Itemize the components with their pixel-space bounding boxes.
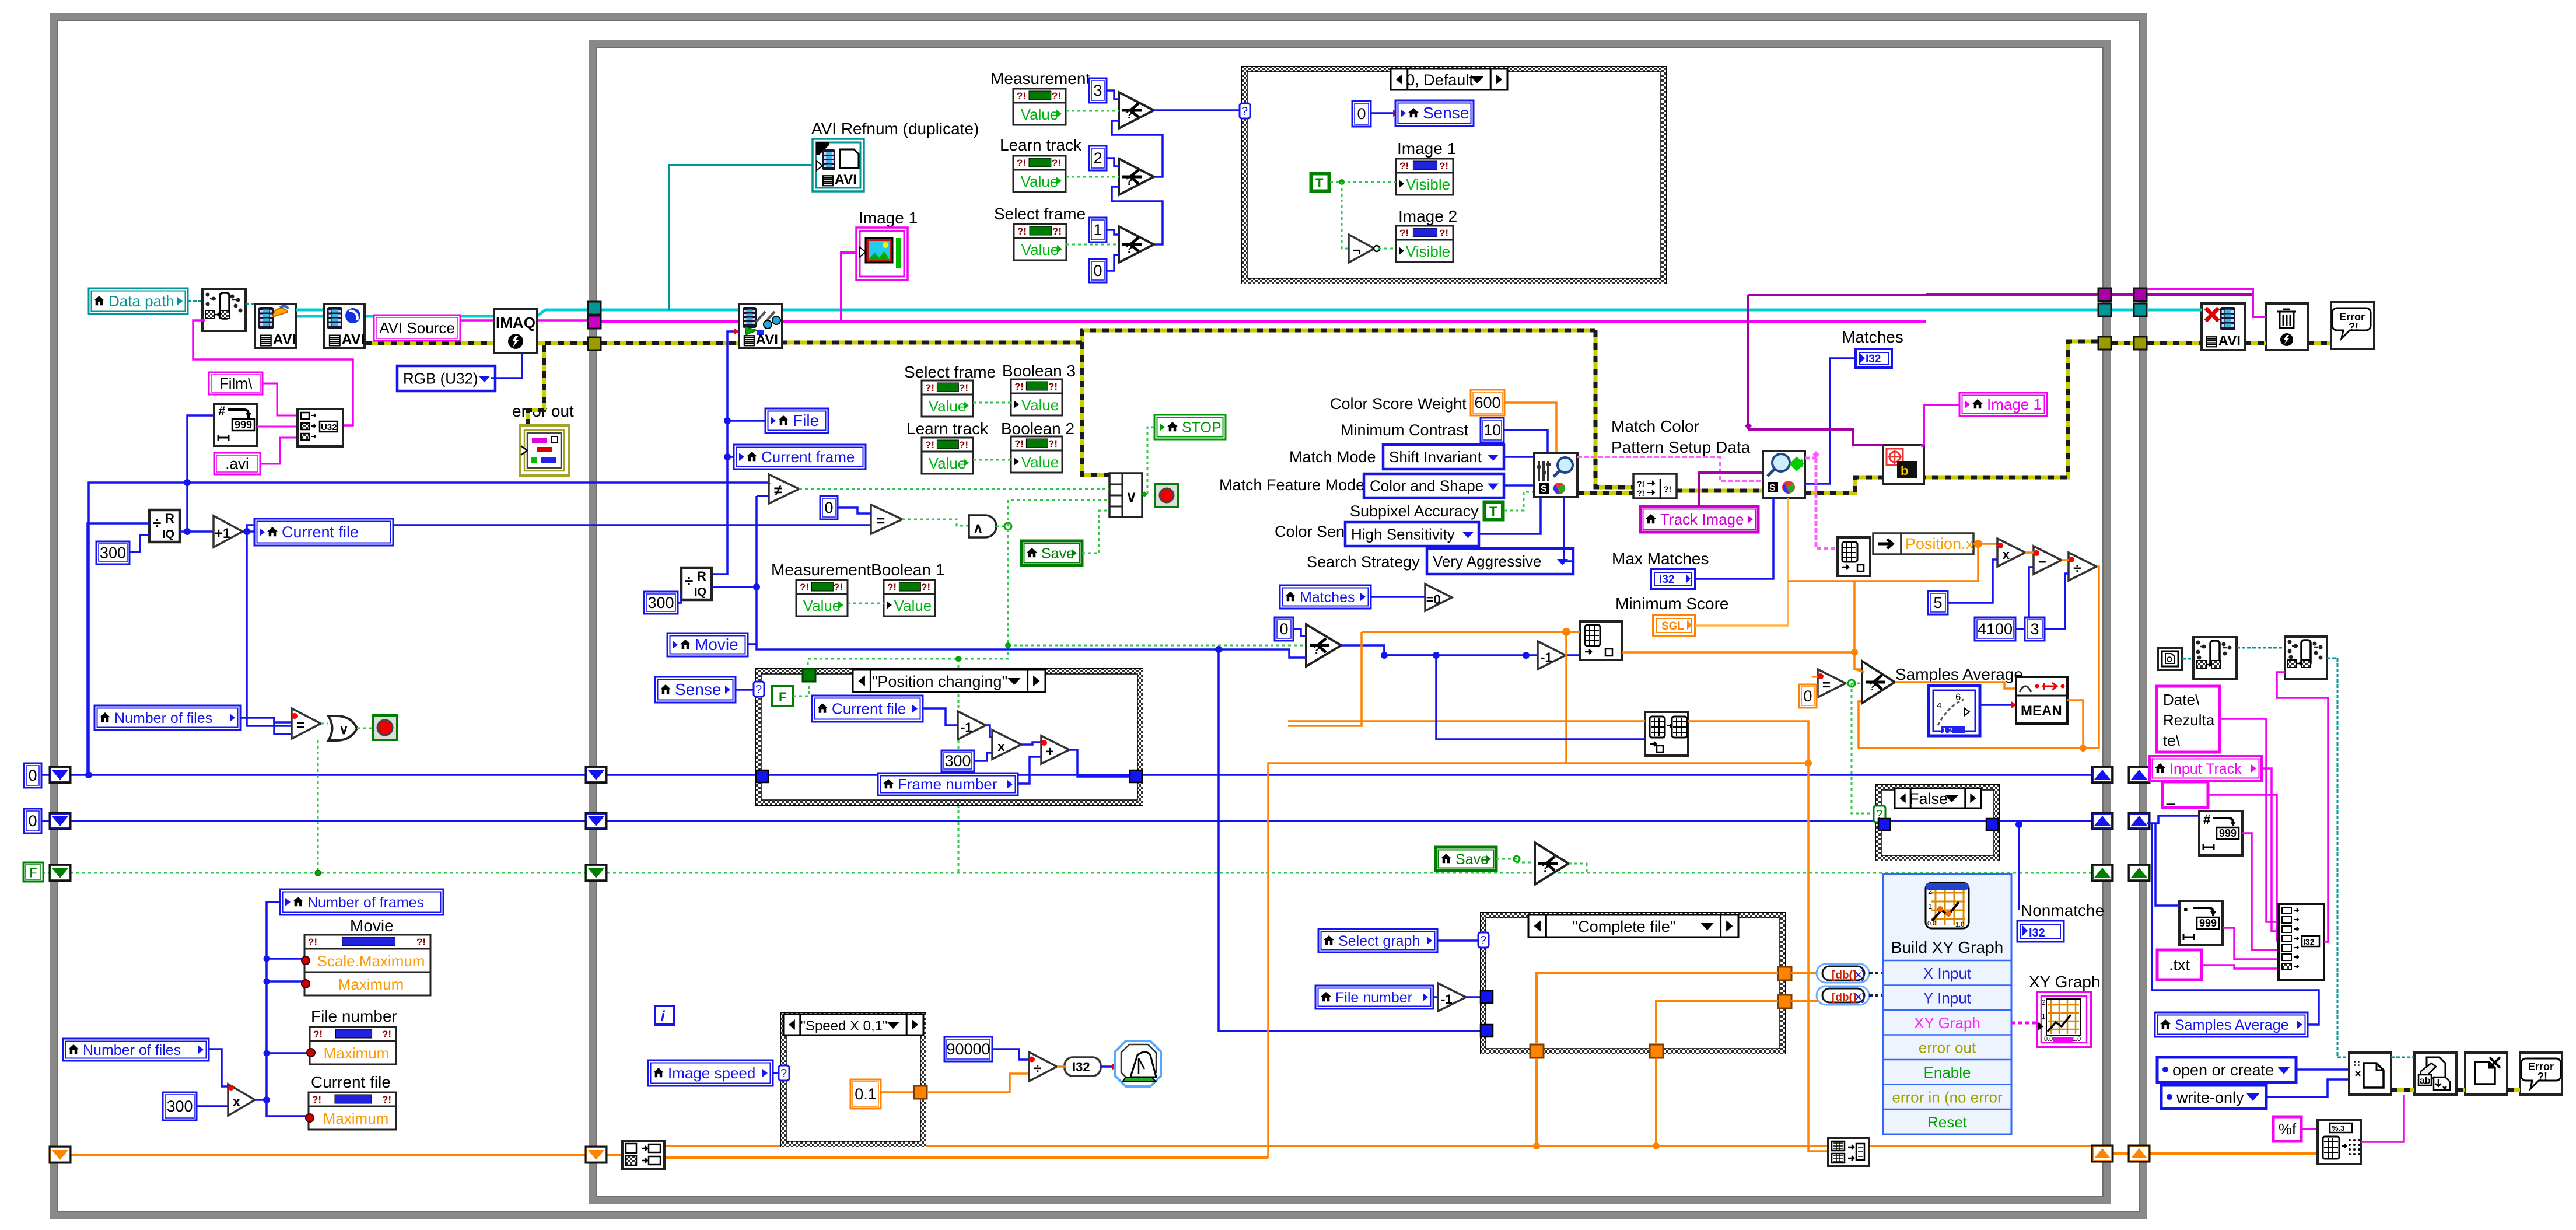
svg-text:[db(]: [db(] <box>1832 969 1856 981</box>
svg-text:Position.x: Position.x <box>1905 535 1974 553</box>
svg-text:x: x <box>2003 547 2010 562</box>
wire +1 down <box>247 532 292 726</box>
wire caseF junction <box>2015 821 2022 828</box>
svg-text:?!: ?! <box>1048 438 1058 449</box>
svg-text:?!: ?! <box>312 1094 321 1105</box>
wire film to concat <box>262 383 297 415</box>
svg-text:Samples Average: Samples Average <box>2175 1017 2289 1033</box>
wire div to i32 <box>1057 1065 1066 1068</box>
wire 300c to qr2 <box>678 593 681 603</box>
node error out cluster <box>520 425 569 476</box>
const 300 case2 <box>942 750 974 771</box>
node IMAQ Overlay <box>1883 445 1924 484</box>
wire bp2 out teal <box>2327 658 2349 1057</box>
wire not to visible2 <box>1378 248 1396 250</box>
svg-text:÷: ÷ <box>685 572 693 589</box>
node concat strings 2 <box>2278 904 2324 980</box>
wire eq to or <box>321 723 328 725</box>
node index array pos <box>1838 537 1870 576</box>
const 0 sense <box>1352 101 1371 127</box>
tunnel teal inner right <box>2098 303 2111 316</box>
svg-text:3: 3 <box>2030 620 2039 638</box>
wire 1 to sel <box>1107 230 1119 235</box>
tunnel case3 bottom orange1 <box>1530 1044 1543 1058</box>
svg-text:0.0: 0.0 <box>2044 1036 2053 1043</box>
svg-text:?!: ?! <box>1664 484 1671 494</box>
svg-text:-1: -1 <box>1541 650 1552 665</box>
wire error main <box>365 341 588 345</box>
svg-text:Image speed: Image speed <box>668 1064 755 1082</box>
wire green sr row <box>71 872 2092 874</box>
tunnel purple inner right <box>2098 288 2111 301</box>
wire green eq to selmid <box>1008 645 1306 647</box>
svg-text:?!: ?! <box>1017 158 1026 169</box>
wire 4100 to minus <box>2015 567 2034 629</box>
wire orange bus1 <box>664 1145 2092 1147</box>
svg-text:Scale.Maximum: Scale.Maximum <box>317 952 425 970</box>
wire blue to 999 <box>187 415 214 532</box>
tunnel case2 left blue <box>756 770 768 782</box>
svg-text:U32: U32 <box>321 422 337 432</box>
wire 0 to selmid <box>1293 629 1306 636</box>
dropdown Color and Shape <box>1364 474 1504 498</box>
svg-text:▤AVI: ▤AVI <box>743 332 778 348</box>
wire 0 to eq <box>838 508 871 513</box>
wire idx2 blue in <box>1436 655 1645 739</box>
svg-text:Very Aggressive: Very Aggressive <box>1433 553 1541 570</box>
node AVI Open <box>255 304 296 348</box>
wire curframe junction <box>727 456 734 458</box>
wire blue long r1 <box>187 481 769 484</box>
wire error to setup <box>781 330 1595 343</box>
const AVI Source <box>374 315 460 341</box>
svg-text:2: 2 <box>2042 998 2046 1007</box>
svg-text:"Position changing": "Position changing" <box>872 673 1007 690</box>
wire case3 orange in2 <box>1656 1001 1778 1044</box>
svg-text:2: 2 <box>1093 149 1102 167</box>
control Save <box>1021 541 1082 565</box>
svg-text:Value: Value <box>803 597 841 614</box>
wire 5 to mult <box>1948 560 1997 603</box>
gate not-equal <box>769 474 799 504</box>
svg-text:Save: Save <box>1041 546 1074 562</box>
node build path 1 <box>2193 637 2236 679</box>
wire AVI Source to IMAQ <box>460 319 494 322</box>
wire 600 to setup <box>1504 403 1556 454</box>
wire r2 to eq <box>870 524 872 526</box>
control Input Track <box>2150 756 2262 781</box>
gate =0 <box>1425 584 1452 611</box>
gate mult pos <box>1997 539 2025 567</box>
svg-text:¬: ¬ <box>1353 243 1361 258</box>
svg-text:#: # <box>218 404 225 418</box>
wire err top final <box>2147 341 2201 345</box>
node AVI Refnum constant <box>813 139 864 191</box>
const 3 <box>1089 78 1107 103</box>
svg-text:R: R <box>697 569 706 583</box>
node IMAQ Dispose <box>2266 303 2308 350</box>
svg-text:#: # <box>2203 812 2210 827</box>
svg-text:?!: ?! <box>925 439 935 450</box>
svg-text:90000: 90000 <box>946 1040 990 1058</box>
svg-text:∨: ∨ <box>339 722 349 737</box>
svg-text:Reset: Reset <box>1927 1113 1968 1131</box>
shift register left 2 <box>50 813 71 829</box>
tunnel caseF selector <box>1874 806 1885 822</box>
control Sense 2 <box>655 677 736 703</box>
svg-text:÷: ÷ <box>2073 561 2081 576</box>
svg-text:Matches: Matches <box>1300 589 1354 606</box>
wire purple image to right tunnels <box>1926 293 2111 296</box>
wire inputtrack out <box>2262 768 2281 931</box>
tunnel orange inner left <box>586 1147 607 1163</box>
wire mult to minus <box>2025 551 2034 554</box>
svg-text:High Sensitivity: High Sensitivity <box>1351 526 1455 543</box>
case selector False <box>1895 788 1981 808</box>
svg-text:=0: =0 <box>1426 592 1441 607</box>
control Number of files 2 <box>63 1039 209 1061</box>
node convert dyn1 <box>1817 964 1869 983</box>
svg-text:≠: ≠ <box>774 481 782 499</box>
outer while loop <box>53 16 2143 1215</box>
svg-text:=: = <box>296 716 305 733</box>
svg-text:?!: ?! <box>313 1029 323 1040</box>
wire 9993 out <box>2222 928 2281 959</box>
gate equal samples <box>1818 669 1846 697</box>
wire 3 to div <box>2045 574 2068 629</box>
svg-text:▤AVI: ▤AVI <box>259 331 296 348</box>
wire case3 out2 <box>1791 1000 1825 1002</box>
svg-text:?!: ?! <box>1052 226 1062 237</box>
wire error down to compound <box>1082 343 1109 475</box>
svg-text:Image 1: Image 1 <box>1397 139 1456 158</box>
svg-text:4: 4 <box>1937 701 1941 711</box>
node write file <box>2414 1053 2456 1095</box>
wire 300b to mult <box>197 1105 228 1107</box>
control Movie <box>667 633 748 656</box>
wire strip to aviopen <box>246 303 255 305</box>
tunnel case3 left blue1 <box>1480 991 1493 1003</box>
wire maxmatches <box>1695 498 1773 579</box>
svg-text:∷: ∷ <box>2354 1059 2360 1069</box>
gate -1 <box>958 711 986 739</box>
wire teal oc to wr <box>2391 1057 2414 1058</box>
wire orange top idx <box>1361 631 1566 633</box>
svg-text:-1: -1 <box>961 720 972 735</box>
node QR divide <box>149 510 180 542</box>
tunnel inner left sr1 <box>586 767 607 783</box>
node array to spreadsheet <box>1828 1138 1869 1166</box>
indicator XY Graph <box>2037 992 2091 1047</box>
svg-text:Value: Value <box>1021 453 1059 471</box>
dropdown open or create <box>2157 1057 2296 1082</box>
svg-text:%.3: %.3 <box>2332 1124 2344 1133</box>
svg-text:?!: ?! <box>1637 479 1644 488</box>
svg-text:R: R <box>165 511 174 526</box>
wire concat2 up <box>2277 672 2328 942</box>
node format 999 #2 <box>2199 811 2242 855</box>
svg-text:Subpixel Accuracy: Subpixel Accuracy <box>1350 502 1479 520</box>
wire i32 to wait <box>1100 1065 1115 1068</box>
indicator STOP <box>1154 415 1226 439</box>
node close file <box>2465 1053 2507 1095</box>
svg-text:te\: te\ <box>2163 732 2180 749</box>
wire trackimage up <box>1699 473 1763 506</box>
wire noff2 to mult <box>209 1049 228 1086</box>
svg-text:I32: I32 <box>1866 353 1881 365</box>
svg-text:Movie: Movie <box>695 635 738 654</box>
svg-text:Frame number: Frame number <box>898 775 998 793</box>
tunnel inner right sr1 <box>2092 767 2113 783</box>
wire QR left input <box>87 523 149 613</box>
svg-text:Number of files: Number of files <box>83 1042 181 1058</box>
wire xygraph link <box>2011 1022 2037 1025</box>
const 0 select <box>1275 617 1293 641</box>
gate AND <box>969 515 996 537</box>
wire neq down col <box>748 496 757 644</box>
gate select learn <box>1119 159 1154 195</box>
wire -1 to case3 <box>1466 996 1482 998</box>
svg-text:?: ? <box>1126 175 1133 188</box>
svg-text:Value: Value <box>929 455 967 472</box>
wire tunnel4 to div <box>927 1074 1029 1092</box>
wire and down2 <box>958 659 960 873</box>
svg-text:?!: ?! <box>1017 226 1027 237</box>
wire numfiles col <box>86 613 89 775</box>
wire orange out tunnels <box>2111 1152 2129 1155</box>
svg-text:2: 2 <box>1928 887 1932 896</box>
svg-text:Minimum Score: Minimum Score <box>1615 595 1728 613</box>
inner while loop <box>593 44 2107 1201</box>
wire blue 0 to sr2 <box>41 820 50 822</box>
gate select save2 <box>1535 843 1569 885</box>
property node File number <box>307 1027 396 1064</box>
svg-text:Build XY Graph: Build XY Graph <box>1891 938 2004 956</box>
tunnel case1 selector <box>1240 103 1250 118</box>
svg-text:Sense: Sense <box>675 680 721 698</box>
gate equal mid <box>871 505 902 534</box>
svg-text:Current file: Current file <box>832 700 906 718</box>
wire movie feed <box>748 644 757 645</box>
wire vipath to build <box>2182 658 2193 660</box>
svg-text:?!: ?! <box>1048 381 1058 392</box>
svg-text:Data path: Data path <box>108 292 174 310</box>
wire orange bus2 <box>664 1156 1268 1159</box>
wire frame value to sel <box>1066 244 1119 246</box>
svg-text:?!: ?! <box>1014 381 1024 392</box>
const 2 <box>1089 146 1107 170</box>
shift register left green <box>50 865 71 881</box>
svg-text:=: = <box>876 512 885 529</box>
wire error setup drop <box>1595 330 1633 487</box>
wire mean out <box>2067 700 2083 748</box>
tunnel inner right sr2 <box>2092 813 2113 829</box>
tunnel outer right orange <box>2129 1145 2150 1162</box>
svg-text:error in (no error: error in (no error <box>1892 1089 2003 1106</box>
property node Measurement bot <box>796 580 848 616</box>
wire +1 to currentfile <box>243 530 254 533</box>
svg-text:b: b <box>1901 463 1908 478</box>
wire eqs down <box>1852 683 1875 813</box>
svg-text:∧: ∧ <box>973 520 984 536</box>
wire writeonly <box>2266 1079 2349 1097</box>
wire error dispose to handler <box>2308 341 2331 345</box>
node format 999 #3 <box>2179 901 2222 945</box>
wire save2 out <box>1569 864 1587 873</box>
svg-text:T: T <box>1489 504 1497 519</box>
gate divide speed <box>1029 1052 1057 1081</box>
wire filenum to -1 <box>1433 996 1438 998</box>
svg-text:3: 3 <box>1093 82 1102 99</box>
property node Image1 Visible <box>1396 159 1453 195</box>
tunnel outer right sr2 <box>2129 813 2150 829</box>
tunnel case4 orange <box>914 1086 927 1099</box>
node index array 2 <box>1645 712 1688 756</box>
svg-text:+1: +1 <box>215 526 230 541</box>
wire minus to div <box>2061 559 2068 561</box>
svg-text:x: x <box>233 1094 241 1110</box>
indicator Number of frames <box>280 889 443 915</box>
wire blue sr1 row <box>71 774 2092 776</box>
control Matches 2 <box>1280 585 1371 609</box>
wire error setup out <box>1577 491 1633 495</box>
svg-text:1: 1 <box>2042 1012 2046 1021</box>
property node Boolean 1 <box>884 580 935 616</box>
wire mult2 to plus <box>1021 742 1041 745</box>
const T case1 <box>1310 173 1330 192</box>
wire imgspeed to case4 <box>773 1072 783 1074</box>
svg-text:Boolean 3: Boolean 3 <box>1002 362 1076 380</box>
svg-text:1.0: 1.0 <box>2072 1036 2081 1043</box>
node number to string <box>2318 1120 2361 1164</box>
node I32 conversion <box>1065 1057 1101 1076</box>
const Film\ <box>209 372 262 394</box>
tunnel magenta inner left <box>588 316 601 329</box>
dropdown Very Aggressive <box>1427 548 1573 574</box>
svg-text:F: F <box>29 866 37 880</box>
svg-text:▪: ▪ <box>2183 902 2188 917</box>
svg-text:?!: ?! <box>1014 438 1024 449</box>
svg-text:Value: Value <box>894 597 932 614</box>
gate = files <box>292 708 321 739</box>
wire err oc-wr <box>2391 1088 2414 1092</box>
wire idx1 orange out <box>1622 652 1864 669</box>
wire magenta image1 vertical <box>841 253 856 322</box>
svg-text:_: _ <box>2166 788 2175 805</box>
svg-text:?!: ?! <box>1399 228 1409 239</box>
wire F to tunnel <box>793 682 809 696</box>
svg-text:Current file: Current file <box>282 523 359 541</box>
svg-text:Maximum: Maximum <box>338 976 404 993</box>
control File number 2 <box>1315 986 1433 1009</box>
const Date Rezultate <box>2157 686 2220 752</box>
property node Boolean 3 <box>1011 379 1062 415</box>
svg-text:STOP: STOP <box>1182 420 1221 436</box>
svg-text:?!: ?! <box>382 1029 391 1040</box>
wire qr2 out <box>712 586 757 588</box>
svg-text:AVI Refnum (duplicate): AVI Refnum (duplicate) <box>811 120 979 138</box>
wire txt out <box>2201 965 2281 969</box>
svg-text:Movie: Movie <box>350 917 394 935</box>
svg-text:0: 0 <box>28 767 37 784</box>
wire orange to numstr <box>2147 1152 2318 1155</box>
wire pos down <box>1788 544 1978 581</box>
node Image 1 refnum <box>856 228 908 280</box>
svg-text:Max Matches: Max Matches <box>1612 550 1709 568</box>
node unbundle speed <box>622 1141 664 1169</box>
svg-text:?: ? <box>780 1067 787 1080</box>
wire orange bottom inner1 <box>604 1154 622 1156</box>
wire rgb to imaq <box>491 353 522 378</box>
svg-text:F: F <box>779 690 786 704</box>
node IMAQ Match Color <box>1763 451 1805 498</box>
property node Boolean 2 <box>1011 436 1062 473</box>
svg-text:0: 0 <box>1279 620 1288 638</box>
wire save2 to sel <box>1496 859 1535 862</box>
gate div pos <box>2068 553 2096 581</box>
indicator File <box>765 408 828 433</box>
wire dyn1 to xy <box>1869 972 1883 974</box>
tunnel outer right sr1 <box>2129 767 2150 783</box>
wire 0 to sense <box>1371 112 1393 114</box>
svg-text:0: 0 <box>1093 262 1102 279</box>
tunnel case2 selector <box>754 682 764 697</box>
case structure False <box>1876 785 1999 861</box>
svg-text:Samples Average: Samples Average <box>1895 665 2023 683</box>
tunnel purple outer right <box>2134 288 2147 301</box>
wire 9992 out <box>2242 833 2281 950</box>
svg-text:"Speed X 0,1": "Speed X 0,1" <box>800 1018 887 1034</box>
wire idx2 orange out <box>1688 721 1828 1151</box>
wire sel1 out <box>1154 109 1242 111</box>
tunnel olive inner right <box>2098 337 2111 350</box>
wire eq out <box>902 519 969 526</box>
case selector Speed <box>783 1014 923 1035</box>
wire orange 2334 col <box>1288 632 1361 726</box>
svg-text:Shift Invariant: Shift Invariant <box>1389 448 1482 466</box>
tunnel orange outer left <box>50 1147 71 1163</box>
const empty string <box>2162 782 2208 808</box>
wire magenta image main <box>596 320 1926 323</box>
svg-text:600: 600 <box>1474 394 1500 411</box>
case selector Position changing <box>853 670 1045 692</box>
svg-text:0.0: 0.0 <box>1927 920 1936 927</box>
control Current file case2 <box>812 696 923 722</box>
wire nof bus <box>267 902 309 1116</box>
wire eqs out <box>1846 683 1864 684</box>
property node Learn track top <box>1013 156 1066 192</box>
control Select graph <box>1318 929 1437 952</box>
case structure Speed <box>781 1013 926 1147</box>
svg-text:Current frame: Current frame <box>761 448 855 466</box>
wire sfv to b3 <box>973 402 1011 404</box>
gate mult case2 <box>992 730 1021 759</box>
wire curfile to -1 <box>923 708 958 725</box>
const %f <box>2273 1117 2301 1141</box>
svg-text:?!: ?! <box>959 439 968 450</box>
control Samples Average <box>2155 1012 2308 1037</box>
svg-text:?!: ?! <box>1399 160 1409 172</box>
svg-text:Rezulta: Rezulta <box>2163 711 2215 729</box>
svg-text:Minimum Contrast: Minimum Contrast <box>1340 421 1469 439</box>
svg-text:?: ? <box>1313 644 1320 656</box>
svg-text:Boolean 2: Boolean 2 <box>1001 420 1074 438</box>
tunnel olive inner left <box>588 337 601 350</box>
const .avi <box>214 453 260 474</box>
svg-text:Value: Value <box>1021 173 1059 190</box>
node AVI Close <box>2201 303 2245 350</box>
node unbundle position <box>1873 533 1974 554</box>
